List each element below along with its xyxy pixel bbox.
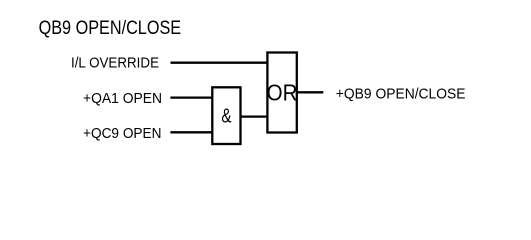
wire OR gate output [297, 91, 324, 93]
svg-text:+QB9 OPEN/CLOSE: +QB9 OPEN/CLOSE [336, 87, 466, 103]
OR gate U2 box [267, 53, 296, 133]
wire +QA1 OPEN to AND gate input 1 [170, 96, 212, 98]
wire +QC9 OPEN to AND gate input 2 [170, 131, 212, 133]
wire AND gate output to OR gate input 2 [241, 115, 268, 117]
svg-text:I/L OVERRIDE: I/L OVERRIDE [71, 56, 159, 72]
svg-text:OR: OR [267, 80, 298, 106]
wire I/L OVERRIDE to OR gate input 1 [171, 62, 268, 64]
AND gate U1 box [212, 87, 240, 144]
svg-text:&: & [221, 105, 231, 127]
svg-text:+QA1 OPEN: +QA1 OPEN [83, 91, 162, 107]
svg-text:QB9 OPEN/CLOSE: QB9 OPEN/CLOSE [39, 18, 182, 39]
svg-text:+QC9 OPEN: +QC9 OPEN [83, 126, 162, 142]
